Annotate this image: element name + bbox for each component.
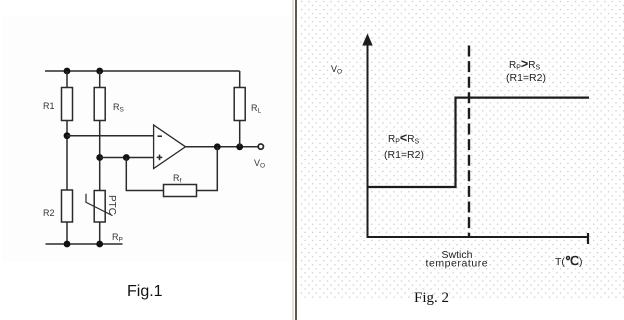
svg-text:VO: VO bbox=[254, 158, 265, 170]
resistor R2 bbox=[62, 190, 73, 222]
node top rail / Rs junction bbox=[96, 68, 103, 75]
dashed switch temperature line bbox=[468, 46, 470, 238]
svg-text:RP: RP bbox=[112, 232, 123, 244]
y axis arrowhead bbox=[362, 34, 372, 46]
wire feedback return bbox=[126, 158, 163, 191]
wire Rp bottom lead bbox=[99, 222, 101, 244]
wire bottom rail bbox=[46, 243, 123, 245]
caption Fig.1 bbox=[127, 283, 163, 301]
panel divider light line bbox=[292, 0, 295, 320]
svg-text:Rf: Rf bbox=[173, 173, 182, 185]
wire R2 bottom lead bbox=[66, 222, 68, 244]
resistor R1 bbox=[62, 88, 73, 121]
resistor Rs bbox=[94, 88, 105, 121]
y axis bbox=[367, 42, 369, 237]
wire RL bottom lead bbox=[239, 121, 241, 147]
svg-text:RL: RL bbox=[251, 103, 262, 115]
wire RL drop from rail bbox=[239, 71, 241, 88]
node non-inverting junction at Rs/Rp bbox=[96, 154, 103, 161]
svg-text:VO: VO bbox=[331, 64, 342, 76]
wire op-amp output bbox=[186, 146, 258, 148]
op-amp U1 bbox=[154, 125, 186, 169]
left panel paper background bbox=[2, 17, 292, 262]
x axis end tick bbox=[587, 233, 589, 244]
wire R1 top lead bbox=[66, 71, 68, 88]
svg-text:(R1=R2): (R1=R2) bbox=[506, 72, 546, 84]
wire top supply rail bbox=[45, 70, 240, 72]
x axis bbox=[367, 236, 589, 238]
op-amp minus pin mark bbox=[158, 135, 163, 137]
node bottom rail / R2 junction bbox=[64, 241, 71, 248]
svg-text:R1: R1 bbox=[43, 101, 55, 111]
step response curve bbox=[367, 98, 590, 187]
caption Fig. 2 bbox=[414, 290, 449, 307]
wire non-inverting input bbox=[100, 157, 154, 159]
wire R1 bottom to R2 top bbox=[66, 121, 68, 191]
wire Rs bottom to PTC top bbox=[99, 121, 101, 191]
svg-text:R2: R2 bbox=[43, 208, 55, 218]
svg-text:RP>RS: RP>RS bbox=[509, 57, 540, 72]
thermistor Rp diagonal stroke bbox=[86, 194, 113, 216]
node inverting input junction bbox=[64, 132, 71, 139]
panel divider dark line bbox=[295, 0, 297, 320]
resistor RL bbox=[234, 88, 245, 121]
wire inverting input bbox=[67, 135, 154, 137]
svg-text:PTC: PTC bbox=[106, 195, 117, 215]
node feedback tap junction bbox=[123, 154, 130, 161]
wire feedback drop bbox=[197, 147, 218, 191]
op-amp plus pin mark bbox=[157, 156, 163, 158]
svg-text:RS: RS bbox=[113, 102, 125, 114]
right panel halftone background bbox=[300, 0, 624, 299]
wire Rs top lead bbox=[99, 71, 101, 88]
node output RL junction bbox=[236, 143, 243, 150]
node output feedback junction bbox=[214, 143, 221, 150]
svg-text:temperature: temperature bbox=[426, 258, 489, 270]
right graph panel bbox=[300, 0, 624, 320]
resistor Rf bbox=[164, 185, 197, 197]
terminal Vo bbox=[258, 144, 263, 149]
left schematic panel bbox=[0, 0, 296, 320]
svg-text:(R1=R2): (R1=R2) bbox=[384, 149, 424, 161]
svg-text:T(℃): T(℃) bbox=[555, 254, 582, 268]
node bottom rail / Rp junction bbox=[96, 241, 103, 248]
node top rail / R1 junction bbox=[64, 68, 71, 75]
svg-text:RP<RS: RP<RS bbox=[388, 131, 419, 146]
thermistor Rp body bbox=[94, 191, 105, 223]
